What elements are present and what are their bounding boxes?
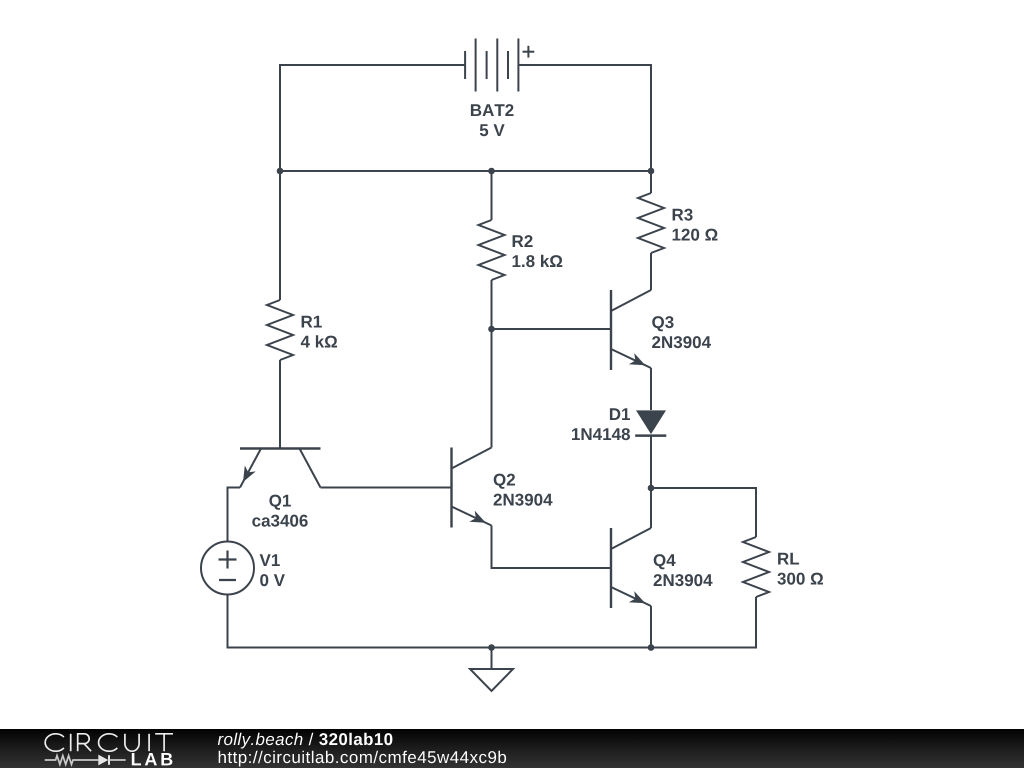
wire — [651, 488, 756, 537]
junction — [277, 168, 284, 175]
wire — [518, 65, 651, 171]
RL value label — [777, 553, 823, 585]
junction — [488, 168, 495, 175]
wire — [321, 487, 452, 489]
Q3 value label — [652, 316, 711, 348]
D1 value label — [572, 408, 630, 440]
voltage source V1 — [201, 542, 254, 595]
resistor R2 — [479, 220, 505, 280]
wire — [228, 488, 241, 542]
wire — [279, 360, 281, 449]
Q4 value label — [654, 554, 713, 586]
R3 value label — [673, 209, 718, 241]
wire — [650, 368, 652, 410]
wire — [492, 526, 612, 569]
wire — [491, 171, 493, 220]
resistor RL — [743, 537, 769, 597]
junction — [648, 168, 655, 175]
wire — [280, 65, 465, 171]
junction — [488, 326, 495, 333]
CircuitLab footer — [0, 729, 1024, 768]
wire — [651, 597, 756, 648]
Q1 value label — [252, 495, 307, 527]
wire — [650, 253, 652, 290]
wire — [279, 171, 281, 300]
wire — [650, 171, 652, 193]
resistor R1 — [267, 300, 293, 360]
wire — [280, 170, 651, 172]
wire — [492, 328, 612, 330]
ground — [470, 648, 513, 692]
Q2 value label — [494, 474, 553, 506]
wire — [491, 280, 493, 329]
wire — [650, 606, 652, 648]
junction — [648, 485, 655, 492]
diode D1 — [635, 410, 666, 435]
resistor R3 — [638, 193, 664, 253]
wire — [491, 329, 493, 448]
battery BAT2 — [465, 39, 534, 92]
junction — [488, 644, 495, 651]
transistor Q4 — [611, 528, 651, 608]
transistor Q2 — [452, 448, 492, 528]
wire — [228, 595, 757, 648]
transistor Q3 — [611, 290, 651, 370]
R1 value label — [301, 316, 337, 348]
junction — [648, 644, 655, 651]
R2 value label — [513, 235, 563, 267]
wire — [650, 436, 652, 488]
V1 value label — [260, 554, 285, 586]
transistor Q1 — [240, 449, 321, 488]
BAT2 value label — [471, 104, 514, 136]
wire — [650, 488, 652, 528]
